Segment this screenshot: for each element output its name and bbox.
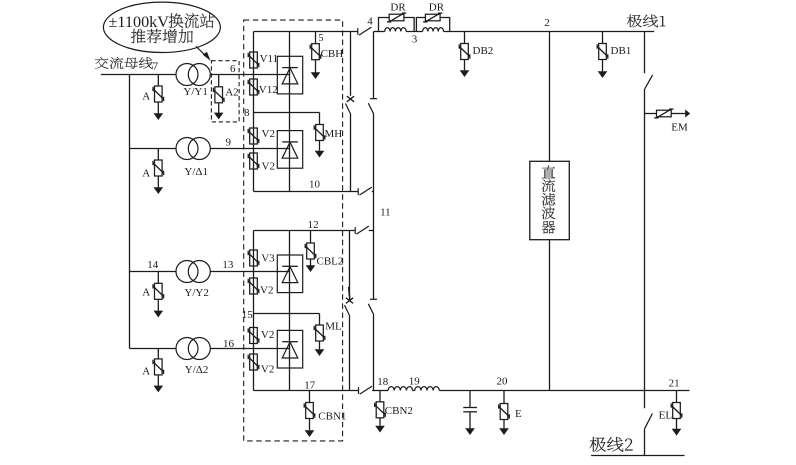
wire: node 15 line <box>254 313 320 315</box>
label 交流母线 <box>95 57 153 69</box>
svg-text:A: A <box>142 91 150 103</box>
wire: pole line 2 bus <box>591 455 684 457</box>
wire: EM branch vertical <box>644 89 646 409</box>
wire: EM branch from pole bus <box>644 32 646 74</box>
wire: row4 transformer to valve 4 <box>210 348 290 350</box>
arrester MH <box>319 113 321 125</box>
svg-text:CBL2: CBL2 <box>317 256 344 268</box>
arrester V2 (lower of valve2) <box>250 153 258 169</box>
label 极线2 <box>590 437 633 452</box>
svg-text:Y/Δ1: Y/Δ1 <box>184 166 208 178</box>
wire: top bus to pole line 1 <box>444 31 655 33</box>
svg-text:DR: DR <box>429 1 445 13</box>
svg-text:V2: V2 <box>262 128 275 140</box>
disconnector in EM branch (blade) <box>645 75 653 89</box>
wire: row1 transformer to valve 1 <box>210 74 290 76</box>
wire: DC filter bottom connection <box>549 240 551 391</box>
svg-text:2: 2 <box>544 17 550 29</box>
wire: bottom bus from node 18 <box>374 390 389 392</box>
smoothing reactor DR coil 1 <box>385 28 407 32</box>
arrester V2 (upper of valve4) <box>250 328 258 344</box>
DC filter box text 「直」 <box>542 166 555 179</box>
svg-text:20: 20 <box>497 376 509 388</box>
svg-text:14: 14 <box>147 259 159 271</box>
wire: node 12 line <box>254 230 356 232</box>
wire: bottom bus to right end <box>439 390 689 392</box>
svg-text:EM: EM <box>671 122 688 134</box>
svg-text:EL: EL <box>659 410 673 422</box>
wire: node 10 line <box>254 191 359 193</box>
wire: DC filter top connection <box>549 32 551 162</box>
valve V2 (Y/Δ1 bridge) <box>277 131 302 169</box>
arrester V2 (lower of valve4) <box>250 354 258 370</box>
svg-text:CBN1: CBN1 <box>318 411 346 423</box>
svg-text:4: 4 <box>367 15 373 27</box>
label 极线1 <box>627 15 666 28</box>
neutral capacitor <box>469 391 471 408</box>
arrester CBH <box>315 32 317 44</box>
svg-text:CBN2: CBN2 <box>385 405 413 417</box>
wire: between reactors <box>406 31 422 33</box>
svg-text:11: 11 <box>380 207 391 219</box>
arrester V12 <box>250 79 258 95</box>
svg-text:A2: A2 <box>225 87 238 99</box>
arrester V2 (upper of valve2) <box>250 128 258 144</box>
arrester DB2 <box>464 32 466 44</box>
svg-text:A: A <box>142 366 150 378</box>
wire: row4 line left <box>130 348 177 350</box>
svg-text:V2: V2 <box>260 285 273 297</box>
arrester CBL2 <box>310 231 312 244</box>
disconnector on node 12 line <box>354 227 356 234</box>
svg-text:V11: V11 <box>260 53 279 65</box>
svg-text:V2: V2 <box>261 364 274 376</box>
wire: valve column group1 <box>289 32 291 192</box>
svg-text:17: 17 <box>304 380 316 392</box>
wire: arrester column group2 <box>253 231 255 391</box>
DC filter box text 「器」 <box>542 221 555 234</box>
wire: row3 line left <box>130 271 177 273</box>
arrester V11 <box>250 52 258 68</box>
arrester E <box>503 391 505 404</box>
wire: node 11 link <box>373 192 375 231</box>
svg-text:18: 18 <box>377 376 389 388</box>
wire: valve column group2 <box>289 231 291 391</box>
annotation ellipse ±1100kV换流站/推荐增加 <box>103 2 220 52</box>
DC filter box <box>530 161 570 239</box>
svg-text:15: 15 <box>242 309 254 321</box>
dashed box: converter valve hall <box>244 20 343 441</box>
svg-text:V2: V2 <box>262 161 275 173</box>
transformer Y/Y1 <box>176 64 198 86</box>
DC filter box text 「滤」 <box>542 193 555 206</box>
arrester CBN2 <box>379 391 381 402</box>
svg-text:DB1: DB1 <box>611 45 632 57</box>
smoothing reactor DR1 parallel arrester <box>379 18 415 32</box>
wire: arrester column group1 <box>253 32 255 192</box>
svg-text:Y/Y1: Y/Y1 <box>183 86 207 98</box>
disconnector on bottom bus to node 18 <box>358 387 360 394</box>
wire: row3 transformer to valve 3 <box>210 271 290 273</box>
bypass breaker chain (group1) <box>350 32 352 96</box>
arrester CBN1 <box>309 391 311 403</box>
annotation arrow to recommended-addition box <box>196 46 207 57</box>
wire: row2 line left <box>130 148 177 150</box>
svg-text:V2: V2 <box>261 329 274 341</box>
arrester V3 <box>250 250 258 266</box>
svg-text:6: 6 <box>230 63 236 75</box>
arrester DB1 <box>602 32 604 44</box>
svg-text:8: 8 <box>244 107 250 119</box>
disconnector on top line to node 4 <box>357 28 359 35</box>
svg-text:ML: ML <box>325 321 342 333</box>
svg-text:MH: MH <box>325 128 343 140</box>
svg-text:21: 21 <box>669 377 680 389</box>
arrester EL <box>676 391 678 403</box>
transformer Y/Δ1 <box>176 138 198 160</box>
svg-text:A: A <box>142 168 150 180</box>
wire: top bus node4 to DR <box>374 31 385 33</box>
DC filter box text 「流」 <box>542 179 555 192</box>
wire: row2 transformer to valve 2 <box>210 148 290 150</box>
svg-text:7: 7 <box>153 60 159 72</box>
svg-text:12: 12 <box>308 219 319 231</box>
dashed box: recommended addition (A2) <box>211 61 239 122</box>
arrester A (row3) <box>157 272 159 284</box>
valve V4 (Y/Δ2 bridge) <box>277 330 302 368</box>
arrester EM (metallic return) <box>645 113 657 115</box>
wire: node 8 line <box>254 112 320 114</box>
wire: AC feeder vertical <box>129 75 131 349</box>
svg-text:19: 19 <box>409 376 421 388</box>
annotation text line2 推荐增加 <box>131 29 193 43</box>
svg-text:A: A <box>142 286 150 298</box>
svg-text:V3: V3 <box>261 253 275 265</box>
smoothing reactor 19 coil <box>388 387 412 391</box>
transformer Y/Δ2 <box>176 338 198 360</box>
svg-text:Y/Y2: Y/Y2 <box>184 287 208 299</box>
wire: group1 top line <box>254 31 358 33</box>
smoothing reactor DR coil 2 <box>423 28 444 32</box>
smoothing reactor DR2 parallel arrester <box>416 18 449 32</box>
arrester A2 <box>218 75 220 87</box>
svg-text:DR: DR <box>390 1 406 13</box>
valve V1 (Y/Y1 bridge) <box>277 56 302 94</box>
wire+disconnector to pole line 2 (blade) <box>645 414 653 429</box>
disconnector on node 10 line <box>357 188 359 195</box>
wire: node 17 line / bottom bus left <box>254 390 359 392</box>
svg-text:13: 13 <box>222 259 234 271</box>
wire: pole2 switch lower <box>644 429 646 456</box>
arrester ML <box>319 314 321 326</box>
bypass disconnector chain (group2) <box>373 231 375 300</box>
svg-text:DB2: DB2 <box>473 45 494 57</box>
arrester V2 (upper of valve3... lower) <box>250 278 258 294</box>
bypass breaker chain (group2) <box>349 231 351 298</box>
svg-text:10: 10 <box>309 178 321 190</box>
wire: AC bus (row1 left) <box>101 74 176 76</box>
svg-text:3: 3 <box>412 33 418 45</box>
annotation text line1 换流站 <box>169 13 214 28</box>
svg-text:9: 9 <box>226 136 232 148</box>
svg-text:Y/Δ2: Y/Δ2 <box>185 364 209 376</box>
arrester A (row2) <box>157 149 159 161</box>
DC filter box text 「波」 <box>542 207 555 220</box>
arrester A (row4) <box>157 349 159 359</box>
transformer Y/Y2 <box>176 261 198 283</box>
svg-text:CBH: CBH <box>321 48 344 60</box>
valve V3 (Y/Y2 bridge) <box>277 255 302 293</box>
arrester A (row1) <box>157 75 159 87</box>
svg-text:±1100kV: ±1100kV <box>109 13 170 31</box>
svg-text:16: 16 <box>223 338 235 350</box>
svg-text:V12: V12 <box>259 84 278 96</box>
svg-text:5: 5 <box>319 33 324 44</box>
svg-text:E: E <box>515 408 522 420</box>
bypass disconnector chain (group1) <box>373 32 375 99</box>
